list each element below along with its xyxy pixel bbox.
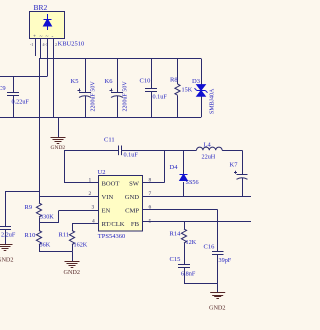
svg-text:BOOT: BOOT <box>102 180 120 187</box>
svg-text:15K: 15K <box>182 87 193 94</box>
wire: BR2 pin3 to left AC rail <box>0 39 48 77</box>
bridge rectifier BR2 body <box>30 12 65 39</box>
svg-text:+: + <box>33 34 36 40</box>
resistor R11 (162K) <box>59 231 88 252</box>
TVS diode D3 (SMBJ40A) <box>192 59 216 118</box>
svg-text:K5: K5 <box>71 78 79 85</box>
ground GND2 (bridge) <box>51 138 66 152</box>
svg-text:2200uF 50V: 2200uF 50V <box>91 81 97 112</box>
svg-text:C16: C16 <box>204 244 216 251</box>
svg-text:VIN: VIN <box>102 194 114 201</box>
bridge BR2 inner diode glyph <box>44 14 52 30</box>
svg-text:0.1uF: 0.1uF <box>124 152 139 159</box>
bridge pin polarity marks <box>33 34 54 40</box>
capacitor C15 (6.8nF) <box>170 256 196 283</box>
svg-text:GND2: GND2 <box>64 269 81 276</box>
svg-text:SW: SW <box>129 180 140 187</box>
wire: top positive rail <box>39 58 201 60</box>
svg-text:12K: 12K <box>186 239 197 246</box>
svg-text:R11: R11 <box>59 232 70 239</box>
svg-text:K7: K7 <box>230 162 239 169</box>
capacitor C11 (0.1uF) boot cap <box>64 137 197 159</box>
wire: CMP pin 6 route <box>143 210 218 252</box>
wire: BR2 pin1 stub <box>35 39 37 56</box>
IC U2 TPS54360 body <box>98 169 143 240</box>
svg-text:GND: GND <box>125 194 140 201</box>
svg-text:C11: C11 <box>104 137 115 144</box>
svg-text:GND2: GND2 <box>209 305 226 312</box>
wire: EN pin 3 route <box>39 211 98 223</box>
svg-text:2: 2 <box>55 42 57 47</box>
resistor R10 (56K) <box>25 231 51 249</box>
svg-text:2.2uF: 2.2uF <box>1 232 16 239</box>
capacitor K7 output <box>230 150 248 196</box>
svg-text:2200uF 50V: 2200uF 50V <box>123 81 129 112</box>
wire: BOOT pin 1 <box>64 150 98 182</box>
svg-text:56K: 56K <box>40 242 51 249</box>
svg-text:C9: C9 <box>0 85 6 92</box>
ground GND2 (divider) <box>64 262 81 277</box>
svg-text:L4: L4 <box>204 142 212 149</box>
capacitor K5 (2200uF 50V) <box>71 59 97 118</box>
svg-text:0.1uF: 0.1uF <box>153 94 168 101</box>
KBU2510 value label <box>58 41 85 48</box>
svg-text:K6: K6 <box>105 78 114 85</box>
ground GND2 (2.2uF) <box>0 245 14 264</box>
wire: BR2 pin2 / main VIN column <box>40 39 41 251</box>
wire: VIN pin 2 <box>39 196 98 198</box>
resistor R9 (330K) <box>25 203 55 221</box>
svg-text:R9: R9 <box>25 204 33 211</box>
svg-text:C15: C15 <box>170 256 181 263</box>
wire: lower rail <box>0 117 201 119</box>
svg-text:3: 3 <box>92 205 95 211</box>
U2 pin numbers <box>89 178 152 225</box>
svg-text:330K: 330K <box>40 214 54 221</box>
capacitor C9 <box>0 77 29 118</box>
capacitor C? 2.2uF <box>0 227 16 245</box>
svg-text:SMBJ40A: SMBJ40A <box>210 88 216 114</box>
svg-text:39pF: 39pF <box>219 257 232 264</box>
svg-text:BR2: BR2 <box>34 3 48 12</box>
U2 pin names <box>102 180 140 228</box>
capacitor K6 (2200uF 50V) <box>105 59 129 118</box>
svg-text:6.8nF: 6.8nF <box>181 271 196 278</box>
svg-text:U2: U2 <box>98 169 106 176</box>
svg-text:KBU2510: KBU2510 <box>58 41 85 48</box>
wire: bottom rail R10-R11 <box>39 251 73 261</box>
capacitor C10 (0.1uF) <box>140 59 168 118</box>
svg-text:-: - <box>52 34 54 40</box>
svg-text:C10: C10 <box>140 78 151 85</box>
ground GND2 (comp network) <box>209 293 226 312</box>
wire: GND drop near bridge <box>58 117 60 137</box>
svg-text:CMP: CMP <box>125 207 139 214</box>
diode D4 (SS56) <box>170 150 199 196</box>
svg-text:R14: R14 <box>170 231 182 238</box>
svg-text:SS56: SS56 <box>186 179 199 186</box>
svg-text:162K: 162K <box>74 242 88 249</box>
BR2 label <box>34 3 48 12</box>
bridge pin number labels <box>30 42 57 47</box>
svg-text:TPS54360: TPS54360 <box>98 233 125 240</box>
wire: 2.2uF branch rail <box>5 191 39 226</box>
svg-text:22uH: 22uH <box>202 154 216 161</box>
wire: RT/CLK pin 4 route <box>72 224 98 231</box>
svg-text:0.22uF: 0.22uF <box>12 99 30 106</box>
resistor R14 (12K) <box>170 222 197 264</box>
svg-text:FB: FB <box>131 221 140 228</box>
svg-text:~: ~ <box>46 34 49 40</box>
inductor L4 (22uH) <box>197 142 243 161</box>
capacitor C16 (39pF) <box>204 244 232 284</box>
wire: GND pin 7 rail to right edge <box>143 196 252 198</box>
svg-text:-1: -1 <box>30 42 33 47</box>
wire: C15/C16 ground link <box>184 283 218 293</box>
svg-text:GND2: GND2 <box>0 257 14 264</box>
svg-text:~: ~ <box>40 34 43 40</box>
wire: FB pin 5 route to right edge <box>143 221 252 223</box>
svg-text:D3: D3 <box>192 78 200 85</box>
resistor R8 (15K) <box>170 59 193 118</box>
svg-text:D4: D4 <box>170 164 179 171</box>
svg-text:GND2: GND2 <box>51 145 66 151</box>
wire: SW pin 8 <box>143 150 165 182</box>
svg-text:EN: EN <box>102 207 111 214</box>
svg-text:R10: R10 <box>25 232 36 239</box>
svg-text:R8: R8 <box>170 77 178 84</box>
svg-text:RT/CLK: RT/CLK <box>102 221 125 228</box>
wire: BR2 pin4 down <box>53 39 55 117</box>
